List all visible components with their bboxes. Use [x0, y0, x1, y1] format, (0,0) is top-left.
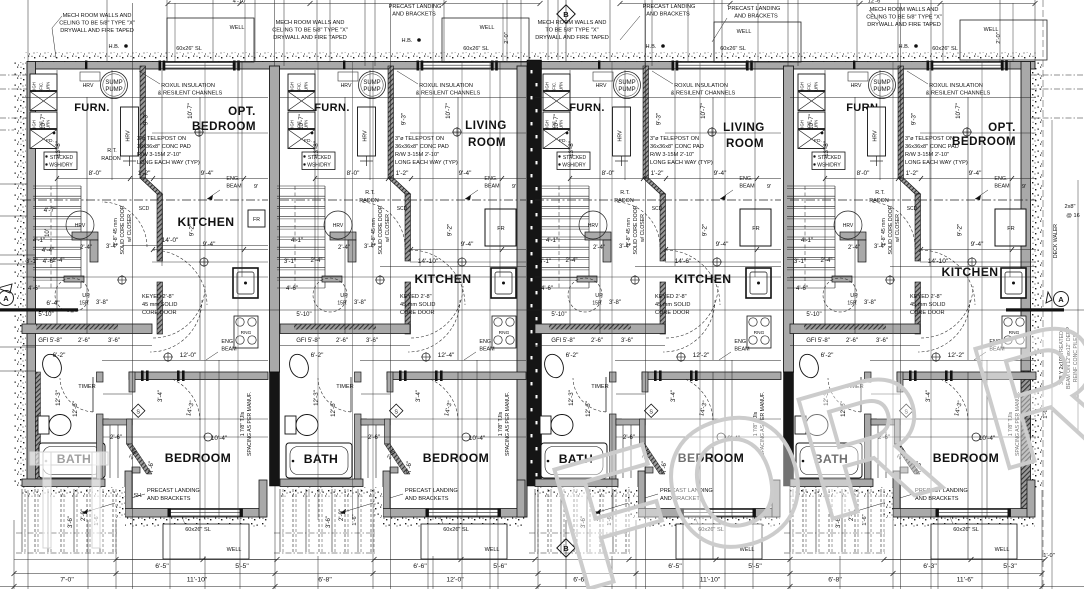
svg-text:ROXUL INSULATION: ROXUL INSULATION [929, 83, 983, 89]
unit 1 top wall window [163, 63, 233, 69]
svg-text:RNG: RNG [754, 330, 765, 336]
svg-text:2'-4": 2'-4" [848, 245, 860, 251]
svg-text:2'-4": 2'-4" [593, 245, 605, 251]
unit 1 bedroom closet [103, 419, 109, 425]
svg-text:6'-2": 6'-2" [566, 352, 579, 359]
unit 2 interior thin horizontals [280, 97, 526, 99]
unit 3 interior wall hall side [660, 194, 666, 261]
section marker A left [0, 291, 14, 306]
unit 1 interior wall hall side [157, 194, 163, 261]
unit 3 kitchen counter wall [535, 324, 665, 334]
svg-text:9': 9' [1022, 184, 1026, 190]
unit 3 bottom dims row1 [629, 559, 790, 561]
unit 1 interior wall furnace/living [140, 66, 146, 178]
unit 3 stipple left jog [628, 497, 638, 518]
unit 4 closet under stairs [840, 232, 866, 240]
svg-text:KITCHEN: KITCHEN [178, 215, 235, 229]
unit 4 counter wall hatch strip [804, 325, 886, 330]
svg-text:TO BE 5/8" TYPE "X": TO BE 5/8" TYPE "X" [545, 28, 598, 34]
svg-text:9'-3": 9'-3" [911, 113, 918, 125]
unit 1 kitchen sink [233, 268, 258, 298]
unit 2 smoke detector diamond [389, 404, 402, 417]
svg-text:9'-3": 9'-3" [401, 113, 408, 125]
party wall units 3-4 lower fire-rated [784, 372, 794, 486]
svg-text:2'-6": 2'-6" [368, 435, 380, 441]
unit 4 interior wall diagonal jog [898, 178, 921, 194]
svg-text:13'-8": 13'-8" [313, 141, 320, 157]
unit 4 landing front wall [893, 509, 1034, 518]
unit 3 bedroom closet [616, 419, 622, 425]
svg-text:ROXUL INSULATION: ROXUL INSULATION [419, 83, 473, 89]
svg-text:BEAM: BEAM [739, 184, 755, 190]
svg-text:8'-0": 8'-0" [602, 170, 615, 177]
svg-text:12'-6": 12'-6" [585, 401, 592, 417]
svg-text:9'-4": 9'-4" [461, 241, 474, 248]
svg-text:BEAM: BEAM [734, 347, 750, 353]
unit 3 window well box [676, 524, 762, 559]
unit 2 top wall window [421, 63, 491, 69]
svg-text:FURN.: FURN. [314, 102, 350, 114]
svg-text:FR: FR [253, 217, 260, 223]
svg-text:3'-8": 3'-8" [609, 300, 621, 306]
svg-text:5'-10": 5'-10" [806, 312, 821, 318]
svg-text:AND BRACKETS: AND BRACKETS [147, 496, 191, 502]
svg-text:ENG.: ENG. [739, 176, 752, 182]
svg-text:MECH ROOM WALLS AND: MECH ROOM WALLS AND [870, 7, 939, 13]
unit 4 bath sink [796, 352, 821, 381]
svg-text:12'-0": 12'-0" [446, 577, 464, 584]
unit 4 hrv flex circle [834, 211, 862, 239]
svg-text:4'-1": 4'-1" [291, 238, 303, 244]
svg-text:DECK WALER: DECK WALER [1053, 224, 1059, 258]
unit 2 top wall blocking ticks [417, 61, 420, 71]
unit 2 bath sink [286, 352, 311, 381]
svg-text:WELL: WELL [480, 25, 495, 31]
svg-text:WSH/DRY: WSH/DRY [562, 163, 586, 169]
svg-text:12'-6": 12'-6" [72, 401, 79, 417]
global grid verticals [27, 0, 29, 62]
unit 4 hall door swing arc [870, 202, 915, 247]
unit 4 light symbol kitchen [968, 258, 976, 266]
svg-text:5'-5": 5'-5" [235, 563, 249, 570]
svg-text:OPT.: OPT. [988, 121, 1016, 134]
svg-text:PRECAST LANDING: PRECAST LANDING [147, 488, 200, 494]
svg-text:60x26" SL: 60x26" SL [720, 46, 746, 52]
svg-text:10'-7": 10'-7" [808, 114, 815, 130]
unit 2 interior wall furnace/living [388, 66, 394, 178]
unit 1 hrv flex circle [66, 211, 94, 239]
unit 1 sump pump [101, 72, 128, 99]
svg-text:9'-4": 9'-4" [201, 170, 214, 177]
unit 2 bedroom closet [361, 419, 367, 425]
unit 3 bedroom left wall upper [642, 372, 648, 392]
unit 2 bedroom top wall [387, 372, 526, 380]
unit 3 bedroom window [683, 510, 753, 517]
svg-text:FD.: FD. [814, 138, 822, 144]
svg-text:4'-6": 4'-6" [541, 286, 553, 292]
unit 3 kitchen sink [746, 268, 771, 298]
unit 3 light symbol kitchen [713, 258, 721, 266]
svg-text:12'-4": 12'-4" [438, 352, 455, 359]
svg-text:RNG: RNG [241, 330, 252, 336]
unit 3 hrv flex circle [579, 211, 607, 239]
svg-text:9'-2": 9'-2" [447, 224, 454, 236]
unit 3 exterior stair treads [534, 489, 536, 552]
unit 2 fridge [485, 209, 516, 246]
unit 4 top wall blocking ticks [927, 61, 930, 71]
svg-text:45 mm SOLID: 45 mm SOLID [910, 302, 945, 308]
unit 3 bath/hall wall [610, 372, 617, 382]
svg-text:3'-8": 3'-8" [96, 300, 108, 306]
svg-text:SUMP: SUMP [618, 80, 635, 86]
unit 4 bedroom window [938, 510, 1008, 517]
svg-text:SUMP: SUMP [873, 80, 890, 86]
unit 3 bedroom top wall [642, 372, 781, 380]
unit 2 side of centre party wall [517, 66, 527, 517]
party wall units 1-2 upper [270, 66, 280, 372]
unit 3 landing front wall [638, 509, 779, 518]
svg-text:BEAM: BEAM [484, 184, 500, 190]
unit 2 bedroom left wall upper [387, 372, 393, 392]
unit 4 HRV unit [868, 107, 886, 156]
unit 4 fridge [995, 209, 1026, 246]
svg-text:5'-10": 5'-10" [296, 312, 311, 318]
svg-text:9'-3": 9'-3" [143, 113, 150, 125]
svg-text:R.T.: R.T. [620, 190, 630, 196]
unit 4 interior wall stub below door [915, 282, 921, 334]
unit 3 kitchen door swing arc [665, 250, 720, 305]
svg-text:60x26" SL: 60x26" SL [932, 46, 958, 52]
svg-text:36x36x8" CONC PAD: 36x36x8" CONC PAD [650, 144, 704, 150]
svg-text:3'-8": 3'-8" [354, 300, 366, 306]
unit 2 interior wall hall side [405, 194, 411, 261]
unit 2 sump pump [359, 72, 386, 99]
svg-text:S: S [394, 409, 398, 415]
unit 2 bath/hall wall [355, 372, 362, 382]
unit 3 engineered beam dashed [535, 199, 781, 201]
svg-text:AND BRACKETS: AND BRACKETS [734, 14, 778, 20]
svg-text:3'-1": 3'-1" [284, 259, 296, 265]
svg-text:WELL: WELL [485, 547, 500, 553]
svg-text:4'-1": 4'-1" [33, 238, 45, 244]
unit 4 blocking ticks on bedroom wall [909, 371, 912, 382]
svg-text:4'-6": 4'-6" [43, 258, 56, 265]
unit 4 interior thin horizontals [790, 97, 1036, 99]
unit 3 range burners [747, 316, 771, 348]
svg-text:& RESILENT CHANNELS: & RESILENT CHANNELS [671, 91, 736, 97]
svg-text:BEDROOM: BEDROOM [165, 451, 231, 465]
unit 2 sl leader [440, 517, 443, 524]
svg-text:HRV: HRV [363, 130, 369, 142]
svg-text:WSH/DRY: WSH/DRY [307, 163, 331, 169]
svg-text:9'-4": 9'-4" [716, 241, 729, 248]
section line B vertical bottom [565, 520, 567, 589]
svg-text:9': 9' [512, 184, 516, 190]
svg-text:2'-6": 2'-6" [110, 435, 122, 441]
unit 4 bedroom angled door [895, 444, 921, 474]
svg-text:PUMP: PUMP [363, 87, 380, 93]
svg-text:9'-4": 9'-4" [969, 170, 982, 177]
svg-text:12'-2": 12'-2" [693, 352, 710, 359]
unit 2 light symbol kitchen [458, 258, 466, 266]
svg-text:36x36x8" CONC PAD: 36x36x8" CONC PAD [905, 144, 959, 150]
svg-text:45 mm SOLID: 45 mm SOLID [655, 302, 690, 308]
svg-text:12'-3": 12'-3" [313, 390, 320, 406]
svg-text:2'-4": 2'-4" [821, 258, 833, 264]
svg-text:3'-6": 3'-6" [621, 338, 633, 344]
svg-text:HRV: HRV [126, 130, 132, 142]
svg-text:9'-2": 9'-2" [957, 224, 964, 236]
svg-text:6'-3": 6'-3" [923, 563, 937, 570]
svg-text:SH.: SH. [134, 493, 143, 499]
unit 3 bathtub [541, 443, 607, 478]
svg-text:5'-10": 5'-10" [38, 312, 53, 318]
svg-text:4'-4": 4'-4" [42, 247, 55, 254]
unit 3 closet under stairs [585, 232, 611, 240]
unit 2 kitchen counter wall [280, 324, 410, 334]
unit 2 stair dashed guard line [294, 186, 296, 288]
unit 2 landing left jog wall [383, 471, 390, 511]
svg-text:2'-4": 2'-4" [338, 245, 350, 251]
svg-text:3'-8": 3'-8" [864, 300, 876, 306]
left exterior wall [27, 62, 36, 490]
svg-text:DRYWALL AND FIRE TAPED: DRYWALL AND FIRE TAPED [867, 22, 941, 28]
unit 4 stipple below landing wall [893, 518, 1035, 527]
unit 2 staircase treads [277, 185, 325, 187]
svg-text:9'-4": 9'-4" [459, 170, 472, 177]
svg-text:PRECAST LANDING: PRECAST LANDING [643, 4, 696, 10]
section marker B bottom [557, 539, 575, 557]
unit 2 stipple below landing wall [383, 518, 525, 527]
svg-text:9'-4": 9'-4" [971, 241, 984, 248]
svg-text:10'-7": 10'-7" [700, 103, 707, 119]
unit 1 bath sink [39, 352, 64, 381]
unit 3 bath door leaf and swing [605, 377, 607, 412]
unit 3 HRV unit [613, 107, 631, 156]
unit 4 bedroom door swing [921, 375, 968, 420]
svg-text:SCD: SCD [652, 206, 663, 212]
unit 2 hrv flex circle [324, 211, 352, 239]
svg-text:R/W 3-15M 2'-10": R/W 3-15M 2'-10" [905, 152, 949, 158]
svg-text:R/W 3-15M 2'-10": R/W 3-15M 2'-10" [137, 152, 181, 158]
svg-text:BEAM: BEAM [479, 347, 495, 353]
global bottom dim line row3 [0, 586, 1084, 588]
svg-text:1'-2": 1'-2" [651, 170, 664, 177]
unit 2 bedroom angled door [385, 444, 411, 474]
unit 4 engineered beam dashed [790, 199, 1036, 201]
unit 1 window well box [163, 524, 249, 559]
unit 3 landing left jog wall [638, 471, 645, 511]
svg-text:2'-8" 45 mm: 2'-8" 45 mm [371, 218, 377, 246]
svg-text:ENG.: ENG. [221, 339, 234, 345]
unit 1 stair dashed guard line [50, 186, 52, 288]
svg-text:SCD: SCD [397, 206, 408, 212]
unit 1 living room light symbol [195, 128, 203, 136]
svg-text:WELL: WELL [230, 25, 245, 31]
unit 2 counter wall hatch strip [294, 325, 376, 330]
svg-text:14'-10": 14'-10" [418, 258, 439, 265]
svg-text:ENG.: ENG. [994, 176, 1007, 182]
right exterior wall lower fire-rated [1021, 371, 1031, 518]
svg-text:12'-0": 12'-0" [180, 352, 197, 359]
svg-text:WSH/DRY: WSH/DRY [817, 163, 841, 169]
unit 1 bedroom top wall [129, 372, 268, 380]
svg-text:1'-2": 1'-2" [906, 170, 919, 177]
unit 2 interior wall stub below door [405, 282, 411, 334]
svg-text:DRYWALL AND FIRE TAPED: DRYWALL AND FIRE TAPED [60, 28, 134, 34]
svg-text:& RESILENT CHANNELS: & RESILENT CHANNELS [416, 91, 481, 97]
unit 2 toilet [285, 416, 296, 434]
unit 4 bathtub [796, 443, 862, 478]
svg-text:& RESILENT CHANNELS: & RESILENT CHANNELS [158, 91, 223, 97]
svg-text:BEDROOM: BEDROOM [952, 135, 1016, 148]
svg-text:60x26" SL: 60x26" SL [953, 527, 979, 533]
unit 1 bathtub [39, 443, 105, 478]
unit 1 engineered beam dashed [22, 199, 268, 201]
svg-text:SOLID CORE DOOR: SOLID CORE DOOR [378, 205, 384, 254]
unit 4 landing left jog wall [893, 471, 900, 511]
unit 3 hall door swing arc [615, 202, 660, 247]
svg-text:HRV: HRV [341, 83, 352, 89]
svg-text:WELL: WELL [227, 547, 242, 553]
svg-text:HRV: HRV [83, 83, 94, 89]
svg-text:PUMP: PUMP [618, 87, 635, 93]
svg-text:LIVING: LIVING [465, 119, 507, 132]
svg-text:4'-10": 4'-10" [233, 0, 248, 5]
svg-text:HRV: HRV [843, 223, 854, 229]
svg-text:2'-6": 2'-6" [78, 338, 90, 344]
svg-text:2'-4": 2'-4" [80, 245, 92, 251]
svg-text:ROOM: ROOM [726, 137, 764, 150]
svg-text:BATH: BATH [304, 452, 339, 466]
svg-text:BEAM: BEAM [221, 347, 237, 353]
svg-text:6'-6": 6'-6" [413, 563, 427, 570]
unit 1 landing front wall [125, 509, 266, 518]
svg-text:FURN.: FURN. [74, 102, 110, 114]
svg-text:3'-1": 3'-1" [539, 259, 551, 265]
svg-text:HRV: HRV [596, 83, 607, 89]
unit 1 stipple left jog [115, 497, 125, 518]
stipple texture left of exterior wall [14, 62, 26, 490]
unit 2 living room light symbol [453, 128, 461, 136]
left wall fire-rated strip at bath level [36, 372, 41, 486]
svg-text:36x36x8" CONC PAD: 36x36x8" CONC PAD [137, 144, 191, 150]
svg-text:3'-4": 3'-4" [158, 390, 164, 402]
svg-text:60x26" SL: 60x26" SL [185, 527, 211, 533]
svg-text:5'-3": 5'-3" [1003, 563, 1017, 570]
section marker B top [557, 5, 575, 23]
svg-text:ENG.: ENG. [484, 176, 497, 182]
unit 2 range burners [492, 316, 516, 348]
svg-text:2'-0": 2'-0" [81, 509, 87, 521]
unit 2 stipple left jog [373, 497, 383, 518]
unit 4 bath bottom wall [790, 479, 873, 487]
unit 2 exterior stair treads [279, 489, 281, 552]
svg-text:FD.: FD. [46, 138, 54, 144]
svg-text:10'-7": 10'-7" [298, 114, 305, 130]
unit 2 dashed duct circle [313, 278, 347, 312]
svg-text:WSH/DRY: WSH/DRY [49, 163, 73, 169]
svg-text:CORE DOOR: CORE DOOR [400, 310, 435, 316]
svg-text:4'-1": 4'-1" [546, 238, 558, 244]
unit 2 bottom dims row1 [374, 559, 535, 561]
unit 2 bathtub [286, 443, 352, 478]
top partial dim row [168, 3, 540, 5]
svg-text:MECH ROOM WALLS AND: MECH ROOM WALLS AND [276, 20, 345, 26]
unit 2 stacked washer dryer [302, 152, 335, 170]
svg-text:PRECAST LANDING: PRECAST LANDING [389, 4, 442, 10]
unit 3 bath sink [541, 352, 566, 381]
svg-text:2'-6": 2'-6" [591, 338, 603, 344]
svg-text:FR: FR [1007, 226, 1014, 232]
svg-text:9'-2": 9'-2" [702, 224, 709, 236]
unit 1 bedroom angled door [127, 444, 153, 474]
svg-text:60x26" SL: 60x26" SL [176, 46, 202, 52]
unit 1 bedroom left wall upper [129, 372, 135, 392]
svg-text:LONG EACH WAY (TYP): LONG EACH WAY (TYP) [137, 160, 200, 166]
svg-text:FURN.: FURN. [569, 102, 605, 114]
svg-text:9'-4": 9'-4" [714, 170, 727, 177]
svg-text:12'-6": 12'-6" [330, 401, 337, 417]
svg-text:FR: FR [497, 226, 504, 232]
unit 3 top wall window [676, 63, 746, 69]
unit 2 stipple below bath wall [280, 487, 383, 497]
unit 2 bath bottom wall [280, 479, 363, 487]
svg-text:PUMP: PUMP [873, 87, 890, 93]
unit 2 kitchen sink [491, 268, 516, 298]
svg-text:1 7/8" TJIs: 1 7/8" TJIs [498, 411, 504, 436]
unit 2 HRV unit [358, 107, 376, 156]
svg-text:HRV: HRV [75, 223, 86, 229]
watermark faint letter fragment lower left [30, 452, 108, 548]
unit 4 landing right wall [1027, 480, 1035, 517]
unit 3 smoke detector diamond [644, 404, 657, 417]
unit 4 living room light symbol [963, 128, 971, 136]
svg-text:R.T.: R.T. [365, 190, 375, 196]
unit 2 engineered beam dashed [280, 199, 526, 201]
svg-text:KEYED 2'-8": KEYED 2'-8" [910, 294, 942, 300]
svg-text:ROXUL INSULATION: ROXUL INSULATION [674, 83, 728, 89]
svg-text:SCD: SCD [907, 206, 918, 212]
unit 3 sl leader [695, 517, 698, 524]
svg-text:w/ CLOSER: w/ CLOSER [640, 214, 646, 242]
svg-text:4'-7": 4'-7" [44, 207, 57, 214]
svg-text:9': 9' [767, 184, 771, 190]
unit 4 bedroom top wall [897, 372, 1036, 380]
unit 2 landing right wall [517, 480, 525, 517]
unit 2 hall door swing arc [360, 202, 405, 247]
svg-text:ENG.: ENG. [226, 176, 239, 182]
unit 1 staircase treads [33, 185, 81, 187]
unit 3 living room light symbol [708, 128, 716, 136]
svg-text:GFI 5'-8": GFI 5'-8" [551, 338, 575, 344]
unit 4 exterior stair treads [789, 489, 791, 552]
unit 1 top wall blocking ticks [159, 61, 162, 71]
svg-text:3"ø TELEPOST ON: 3"ø TELEPOST ON [905, 136, 954, 142]
unit 4 sump pump [869, 72, 896, 99]
unit 4 interior thin verticals [824, 70, 826, 324]
unit 1 bath/hall wall [97, 372, 104, 382]
svg-text:ENG.: ENG. [479, 339, 492, 345]
svg-text:10'-7": 10'-7" [553, 114, 560, 130]
unit 3 interior thin verticals [569, 70, 571, 324]
unit 4 kitchen door swing arc [920, 250, 975, 305]
top window wells [167, 18, 254, 62]
svg-text:6'-5": 6'-5" [155, 563, 169, 570]
svg-text:CELING TO BE 5/8" TYPE "X": CELING TO BE 5/8" TYPE "X" [272, 28, 348, 34]
svg-text:PUMP: PUMP [105, 87, 122, 93]
unit 4 bedroom left wall upper [897, 372, 903, 392]
